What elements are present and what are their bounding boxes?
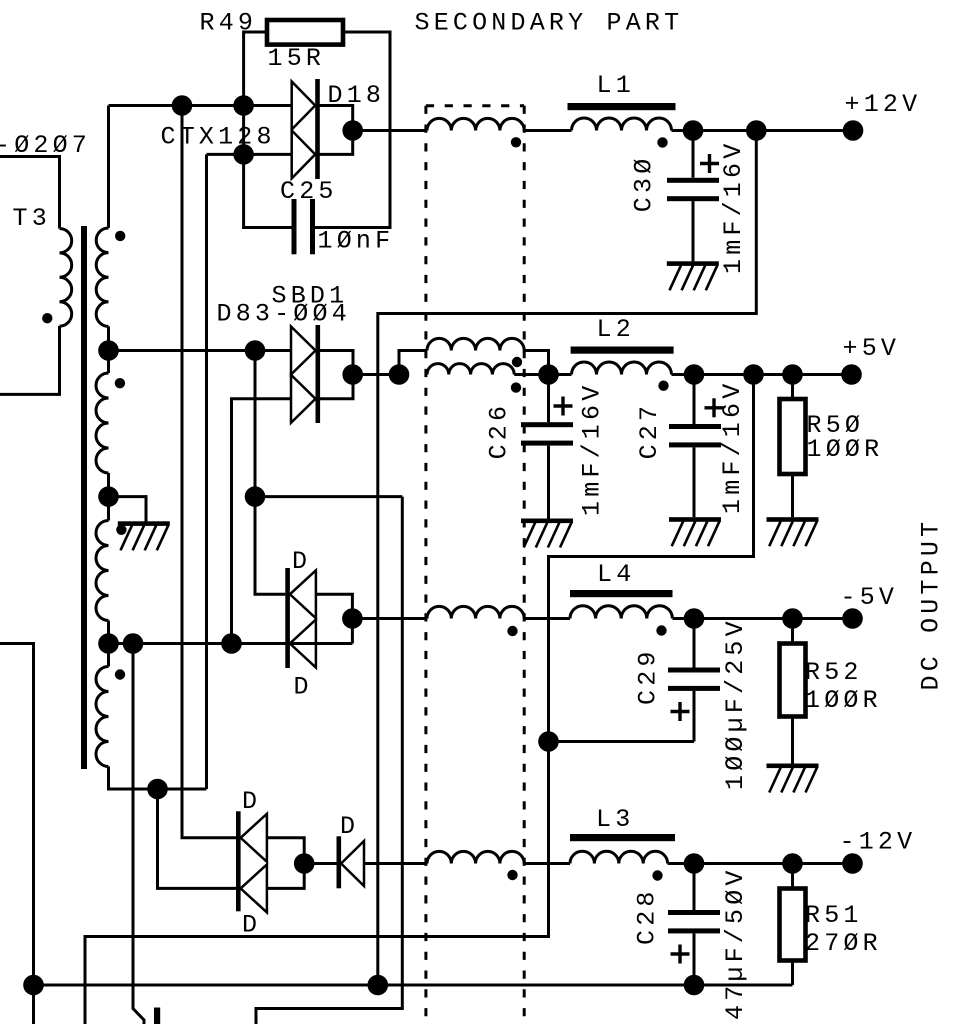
node junction bottom bus left [23, 975, 44, 996]
wire -5V tap wire [109, 642, 353, 645]
wire choke row2 lower out [514, 373, 548, 376]
wire C25 left lead [244, 154, 292, 227]
wire bottom bus [34, 984, 793, 987]
svg-text:C25: C25 [280, 177, 338, 206]
wire diode D out to choke [364, 862, 427, 865]
diode D18 cathode bar [315, 79, 320, 179]
wire x=255 vertical [255, 351, 285, 595]
wire R51 bottom lead [791, 960, 794, 985]
transformer T3 primary phase dot [42, 313, 52, 323]
wire C30 top lead [692, 131, 695, 178]
coupled choke core dashed box left edge [424, 106, 427, 1024]
capacitor C30 plus sign [700, 162, 719, 165]
svg-text:1mF/16V: 1mF/16V [719, 140, 748, 274]
wire +12V rail [672, 129, 854, 132]
coupled choke winding row2 lower [427, 364, 514, 375]
wire y=496 to x=402 vertical [255, 495, 402, 498]
svg-text:-5V: -5V [841, 583, 899, 612]
capacitor C30 plates [667, 178, 719, 183]
inductor L1 core bar [568, 103, 676, 110]
svg-text:C28: C28 [633, 887, 662, 945]
wire T3 tap to SBD1 upper anode [109, 349, 292, 352]
inductor L2 core bar [571, 347, 674, 354]
resistor R51 body [780, 889, 806, 961]
wire x=133 vertical down [133, 644, 144, 1024]
wire S1 to tap [107, 326, 110, 350]
wire -12V rail [668, 862, 853, 865]
diode D cathode bar [337, 836, 342, 888]
wire choke row3 to L4 [524, 617, 570, 620]
capacitor C28 plates [668, 910, 720, 915]
diode D triangle [341, 841, 364, 886]
transformer T3 primary winding [60, 229, 72, 327]
inductor L1 winding [572, 118, 672, 131]
coupled choke winding row4 [427, 851, 524, 863]
svg-text:D: D [242, 787, 261, 816]
svg-text:+5V: +5V [843, 334, 901, 363]
svg-text:D: D [294, 673, 313, 702]
transformer T3 secondary S4 phase dot [115, 669, 125, 679]
choke row1 phase dot [511, 137, 521, 147]
svg-text:1ØØR: 1ØØR [805, 686, 882, 715]
wire T3 secondary bottom lead [109, 767, 207, 790]
wire -5V rectifier upper anode out [316, 594, 353, 643]
wire SBD1 out to choke node [353, 373, 399, 376]
transformer T3 secondary S3 phase dot [116, 525, 126, 535]
wire C28 bottom lead [693, 933, 696, 985]
wire choke row2 upper out [524, 351, 548, 375]
ground at R52 [767, 764, 819, 769]
svg-text:15R: 15R [268, 44, 326, 73]
ground at C26 [521, 519, 573, 524]
diode -12V rectifier cathode bar [236, 811, 241, 911]
inductor L1 phase dot [657, 137, 667, 147]
node T3 center tap +5V junction [98, 340, 119, 361]
inductor L4 core bar [570, 590, 673, 597]
wire +5V rail [672, 373, 852, 376]
inductor L4 winding [570, 606, 672, 619]
wire R50 bottom lead [791, 474, 794, 517]
svg-text:R52: R52 [805, 658, 863, 687]
ground at C27 [669, 517, 721, 522]
svg-text:1ØØR: 1ØØR [807, 435, 884, 464]
wire gnd tap to S3 [107, 497, 110, 521]
node junction C28 top [684, 853, 705, 874]
wire -5V rail [673, 617, 853, 620]
wire S2 to gnd tap [107, 473, 110, 497]
node junction x133 vertical [123, 633, 144, 654]
svg-text:+12V: +12V [845, 90, 922, 119]
svg-text:C27: C27 [635, 402, 664, 460]
wire R49 left lead [244, 32, 267, 106]
diode SBD1 cathode bar [316, 325, 321, 423]
node D18 output junction [342, 120, 363, 141]
wire to choke row2 upper [399, 351, 427, 375]
wire SBD1 outputs join [320, 351, 353, 399]
diode -12V rectifier lower triangle [241, 864, 267, 912]
inductor L3 phase dot [652, 870, 662, 880]
node junction SBD1 lower anode / -5V tap wire [221, 633, 242, 654]
node junction tap wire / x255 vertical [245, 340, 266, 361]
wire C26 bottom lead [547, 446, 550, 519]
wire y=154 to D18 lower anode [207, 153, 292, 156]
ground at R50 [767, 517, 819, 522]
inductor L2 winding [572, 362, 672, 375]
wire C29 return [549, 740, 695, 743]
diode -5V rectifier cathode bar [285, 568, 290, 668]
node SBD1 output junction [342, 364, 363, 385]
svg-text:-12V: -12V [840, 828, 917, 857]
resistor R52 body [780, 644, 806, 717]
svg-text:27ØR: 27ØR [805, 929, 882, 958]
node junction C27 top [684, 364, 705, 385]
diode SBD1 upper triangle [291, 327, 316, 375]
wire +12V loop down-left-down [378, 131, 757, 986]
diode -12V rectifier upper triangle [241, 814, 267, 862]
svg-text:47µF/5ØV: 47µF/5ØV [721, 866, 750, 1020]
wire choke row1 to L1 [524, 129, 571, 132]
node junction R50 top [782, 364, 803, 385]
node junction transformer bottom [147, 779, 168, 800]
wire S3 to -5V tap [107, 621, 110, 644]
ground at C30 [667, 261, 719, 266]
node -5V rectifier output junction [342, 608, 363, 629]
wire corner x=206 down to transformer bottom [205, 154, 208, 789]
wire -12V rectifier anodes join [267, 838, 304, 889]
capacitor C25 plates [292, 199, 297, 254]
coupled choke core dashed box top edge [426, 104, 524, 107]
node junction top wire / long vertical [172, 95, 193, 116]
svg-text:L3: L3 [596, 805, 634, 834]
svg-text:L4: L4 [597, 560, 635, 589]
wire top secondary to D18 [109, 104, 292, 107]
ground at transformer tap [118, 521, 170, 526]
transformer T3 secondary S1 phase dot [115, 231, 125, 241]
svg-text:SECONDARY PART: SECONDARY PART [415, 9, 684, 38]
wire C28 top lead [693, 864, 696, 911]
wire +5V loop to -5V area [85, 375, 754, 1024]
wire C29 bottom lead [693, 691, 696, 742]
capacitor C29 plus sign [671, 710, 690, 713]
transformer T3 secondary winding S2 [96, 373, 109, 473]
svg-text:1ØØµF/25V: 1ØØµF/25V [721, 617, 750, 790]
capacitor C29 plates [668, 668, 720, 673]
svg-text:D: D [292, 547, 311, 576]
wire T3 secondary top lead [107, 106, 110, 229]
node junction C29 return [538, 731, 559, 752]
svg-text:D: D [340, 812, 359, 841]
node T3 ground tap junction [98, 486, 119, 507]
wire R52 bottom lead [791, 717, 794, 764]
capacitor C27 plates [669, 424, 721, 429]
resistor R50 body [780, 399, 806, 474]
svg-text:D: D [242, 911, 261, 940]
transformer T3 core [81, 226, 87, 769]
wire C30 bottom lead [692, 201, 695, 261]
node junction +5V loop down [743, 364, 764, 385]
capacitor C26 plus sign [554, 404, 573, 407]
choke row2 lower phase dot [511, 382, 521, 392]
wire choke row4 to L3 [524, 862, 570, 865]
node junction choke row2 split [389, 364, 410, 385]
diode -5V rectifier lower triangle [290, 620, 316, 668]
node junction D18 lower anode / C25 [233, 144, 254, 165]
wire C27 top lead [693, 375, 696, 425]
wire +5V to L2 [549, 373, 572, 376]
svg-text:C29: C29 [634, 647, 663, 705]
transformer T3 secondary S2 phase dot [115, 378, 125, 388]
wire bottom connector stub [154, 1008, 160, 1024]
wire x=402 vertical down [256, 497, 402, 1024]
wire -5V tap to S4 [107, 644, 110, 667]
wire R50 top lead [791, 375, 794, 400]
wire long vertical x=182 to bottom rectifier [182, 106, 236, 838]
node junction R51 top [782, 853, 803, 874]
wire C27 bottom lead [693, 447, 696, 517]
diode -5V rectifier upper triangle [290, 570, 316, 618]
choke row3 phase dot [507, 626, 517, 636]
capacitor C27 plus sign [705, 406, 724, 409]
wire R49 right lead down to C25 [315, 32, 390, 228]
wire to single diode D [304, 862, 336, 865]
wire T3 primary top lead [0, 157, 60, 229]
node junction top wire / R49 left [233, 95, 254, 116]
capacitor C28 plus sign [671, 952, 690, 955]
wire vertical R49-left to C25 node [242, 106, 245, 155]
svg-text:1ØnF: 1ØnF [318, 227, 395, 256]
transformer T3 secondary winding S1 [96, 228, 108, 326]
svg-text:C3Ø: C3Ø [630, 155, 659, 213]
wire +12V rail to choke [353, 129, 427, 132]
transformer T3 secondary winding S4 [96, 667, 109, 767]
coupled choke winding row1 [427, 118, 524, 130]
svg-text:DC OUTPUT: DC OUTPUT [917, 518, 946, 691]
wire tap to S2 [107, 351, 110, 374]
inductor L3 winding [570, 851, 668, 863]
svg-text:1mF/16V: 1mF/16V [718, 380, 747, 514]
coupled choke winding row2 upper [427, 338, 524, 350]
capacitor C26 plates [521, 422, 573, 427]
coupled choke core dashed box right edge [523, 106, 526, 1024]
wire SBD1 lower anode feed [232, 399, 292, 644]
wire R51 top lead [791, 864, 794, 889]
svg-text:L2: L2 [597, 315, 635, 344]
node junction C30 top [683, 120, 704, 141]
diode D18 upper triangle [292, 82, 316, 130]
node junction +12V loop down [746, 120, 767, 141]
wire x=157 down to bottom diode [158, 789, 237, 888]
inductor L4 phase dot [656, 625, 666, 635]
node junction x255 / y496 wire [245, 486, 266, 507]
svg-text:D83-ØØ4: D83-ØØ4 [217, 300, 351, 329]
transformer T3 secondary winding S3 [96, 521, 109, 621]
choke row2 upper phase dot [512, 357, 522, 367]
diode SBD1 lower triangle [291, 375, 316, 423]
wire -5V rail to choke [352, 617, 427, 620]
node junction bottom bus / C28 [684, 975, 705, 996]
node -5V output terminal [842, 608, 863, 629]
svg-text:C26: C26 [485, 402, 514, 460]
wire C26 top lead [547, 375, 550, 423]
svg-text:T3: T3 [13, 204, 51, 233]
diode D18 lower triangle [292, 130, 316, 178]
svg-text:1mF/16V: 1mF/16V [578, 382, 607, 516]
wire T3 primary bottom lead [0, 326, 60, 394]
node junction bottom bus / +12V loop [368, 975, 389, 996]
wire D18 outputs join [319, 106, 353, 155]
wire R52 top lead [791, 619, 794, 644]
node +12V output terminal [843, 120, 864, 141]
node junction C29 top [684, 608, 705, 629]
wire ground tap branch [109, 497, 147, 522]
node -12V rectifier output junction [294, 853, 315, 874]
node junction +5V / C26 [538, 364, 559, 385]
resistor R49 body [267, 20, 343, 45]
coupled choke winding row3 [427, 606, 524, 618]
inductor L3 core bar [570, 834, 675, 841]
svg-text:L1: L1 [597, 71, 635, 100]
wire left edge wire [0, 644, 34, 1024]
wire C29 top lead [693, 619, 696, 668]
inductor L2 phase dot [658, 381, 668, 391]
svg-text:CTX128: CTX128 [161, 123, 276, 152]
svg-text:R51: R51 [805, 901, 863, 930]
node T3 tap -5V junction [98, 633, 119, 654]
node -12V output terminal [842, 853, 863, 874]
node +5V output terminal [841, 364, 862, 385]
choke row4 phase dot [507, 870, 517, 880]
node junction R52 top [782, 608, 803, 629]
